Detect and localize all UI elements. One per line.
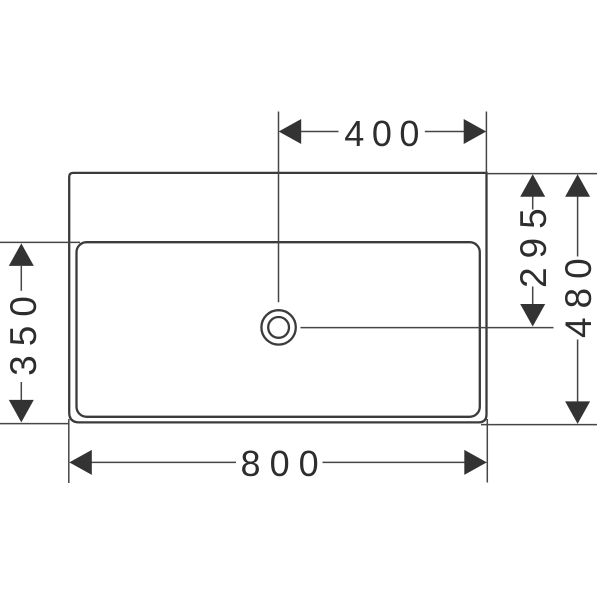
drain inner circle <box>268 317 289 338</box>
dim 480 up arrow <box>565 174 590 197</box>
svg-text:800: 800 <box>241 443 328 484</box>
left top reference line <box>0 241 80 243</box>
dim 400 line left segment <box>301 131 339 133</box>
dim 350 up arrow <box>9 243 34 266</box>
dim 400 left arrow <box>279 119 302 144</box>
basin outer outline <box>69 173 486 423</box>
dim 295 down arrow <box>520 304 545 327</box>
dim 800 line left segment <box>91 461 236 463</box>
right top reference line <box>487 173 598 175</box>
dim 400 right arrow <box>464 119 487 144</box>
svg-text:480: 480 <box>558 249 599 338</box>
dim 480 line upper segment <box>577 197 579 257</box>
dim 400 right extension line <box>485 112 487 175</box>
dim 295 line upper segment <box>532 197 534 210</box>
dim 350 line upper segment <box>20 266 22 291</box>
right bottom reference line <box>481 424 597 426</box>
svg-text:350: 350 <box>3 287 44 376</box>
dim 350 line lower segment <box>20 382 22 401</box>
dim 800 right extension line <box>486 419 488 483</box>
dim 800 left arrow <box>69 450 92 475</box>
vertical center line <box>278 112 280 303</box>
left bottom reference line <box>0 423 69 425</box>
dim 295 line lower segment <box>532 287 534 305</box>
dim 350 down arrow <box>9 400 34 423</box>
dim 480 line lower segment <box>577 340 579 403</box>
basin inner bowl outline <box>77 242 480 417</box>
drain center line to right <box>301 327 554 329</box>
dim 400 line right segment <box>425 131 465 133</box>
dim 295 up arrow <box>520 174 545 197</box>
svg-text:295: 295 <box>513 199 554 288</box>
dim 800 right arrow <box>464 450 487 475</box>
dim 800 line right segment <box>323 461 466 463</box>
svg-text:400: 400 <box>344 113 427 154</box>
dim 480 down arrow <box>565 401 590 424</box>
drain outer circle <box>261 310 295 344</box>
dim 800 left extension line <box>68 419 70 483</box>
